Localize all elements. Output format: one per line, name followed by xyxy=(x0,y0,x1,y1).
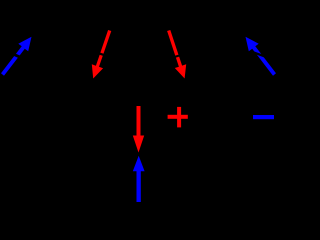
black crystal edge crossing inner-right arrow xyxy=(166,54,186,60)
red plus charge sign xyxy=(168,107,188,128)
blue force arrow top-right pointing up-left xyxy=(246,37,277,76)
red force arrow inner-right pointing down-right xyxy=(167,30,186,79)
black crystal edge crossing inner-left arrow xyxy=(92,51,112,57)
blue force arrow top-left pointing up-right xyxy=(1,37,32,76)
diagram: forces and charges on a piezoelectric element (black linework invisible on black background) xyxy=(0,0,277,213)
blue minus charge sign xyxy=(253,115,274,119)
black crystal edge crossing top-right arrow xyxy=(251,52,271,59)
black crystal edge crossing top-left arrow xyxy=(6,51,27,61)
red force arrow inner-left pointing down-left xyxy=(92,30,112,79)
red center arrow pointing down xyxy=(133,106,144,153)
blue center arrow pointing up xyxy=(133,156,145,202)
